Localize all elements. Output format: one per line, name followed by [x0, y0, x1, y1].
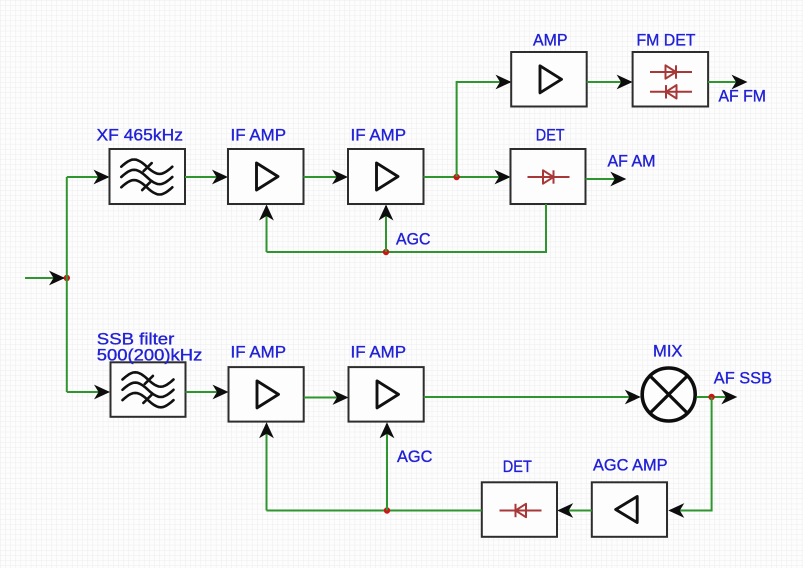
svg-text:DET: DET	[536, 126, 565, 145]
svg-text:AMP: AMP	[533, 31, 568, 50]
wire MIX output AF SSB	[697, 390, 738, 405]
svg-text:DET: DET	[503, 457, 532, 476]
svg-text:AGC: AGC	[396, 230, 431, 249]
mixer MIX	[642, 368, 695, 421]
svg-text:IF AMP: IF AMP	[351, 126, 407, 145]
wire IF AMP t2 to DET	[424, 170, 511, 185]
svg-text:XF 465kHz: XF 465kHz	[97, 126, 184, 145]
svg-text:AF FM: AF FM	[719, 87, 767, 106]
wire FM DET output AF FM	[708, 75, 747, 90]
wire IF AMP b2 to MIX	[424, 390, 641, 405]
block IF AMP t2	[348, 149, 424, 204]
svg-text:MIX: MIX	[653, 342, 683, 361]
wire AMP to FM DET	[587, 75, 633, 90]
block FM DET	[633, 52, 709, 107]
wire IF AMP t1 to t2	[304, 170, 349, 185]
svg-text:IF AMP: IF AMP	[351, 343, 407, 362]
block SSB filter	[111, 362, 186, 417]
block IF AMP b2	[349, 367, 424, 422]
svg-text:AGC AMP: AGC AMP	[593, 456, 668, 475]
block IF AMP t1	[228, 149, 304, 204]
block AMP	[511, 52, 587, 107]
svg-text:500(200)kHz: 500(200)kHz	[97, 346, 203, 365]
node AGC bottom junction	[384, 507, 390, 513]
wire AGC riser b1	[259, 422, 274, 510]
wire AF SSB down to AGC AMP	[668, 397, 711, 518]
block DET bottom	[482, 482, 557, 537]
wire AGC top feedback	[267, 204, 547, 252]
block AGC AMP	[592, 482, 667, 537]
block IF AMP b1	[229, 367, 304, 422]
block DET top	[511, 149, 586, 204]
wire AGC riser t1	[259, 205, 274, 253]
svg-text:AF AM: AF AM	[608, 152, 656, 171]
wire XF to IF AMP t1	[185, 170, 228, 185]
wire AGC AMP to DET bottom	[557, 503, 592, 518]
svg-text:AF SSB: AF SSB	[714, 369, 772, 388]
wire AGC riser t2	[379, 205, 394, 253]
wire input left	[25, 271, 65, 286]
svg-text:IF AMP: IF AMP	[231, 343, 287, 362]
wire main vertical bus	[66, 177, 68, 392]
svg-text:AGC: AGC	[397, 447, 433, 466]
wire to XF filter	[67, 170, 110, 185]
node AGC top junction	[383, 249, 389, 255]
svg-text:FM DET: FM DET	[637, 31, 696, 50]
wire branch up to AMP	[457, 75, 512, 177]
block XF 465kHz filter	[110, 149, 186, 204]
wire AGC riser b2	[380, 422, 395, 510]
wire SSB to IF AMP b1	[186, 385, 229, 400]
wire AGC bottom feedback	[267, 510, 482, 512]
wire bus to SSB filter	[67, 385, 110, 400]
svg-text:IF AMP: IF AMP	[231, 126, 287, 145]
wire IF AMP b1 to b2	[304, 390, 349, 405]
node AF SSB junction	[708, 394, 714, 400]
wire DET output AF AM	[586, 172, 627, 187]
node input junction	[64, 275, 70, 281]
node branch junction	[453, 174, 459, 180]
